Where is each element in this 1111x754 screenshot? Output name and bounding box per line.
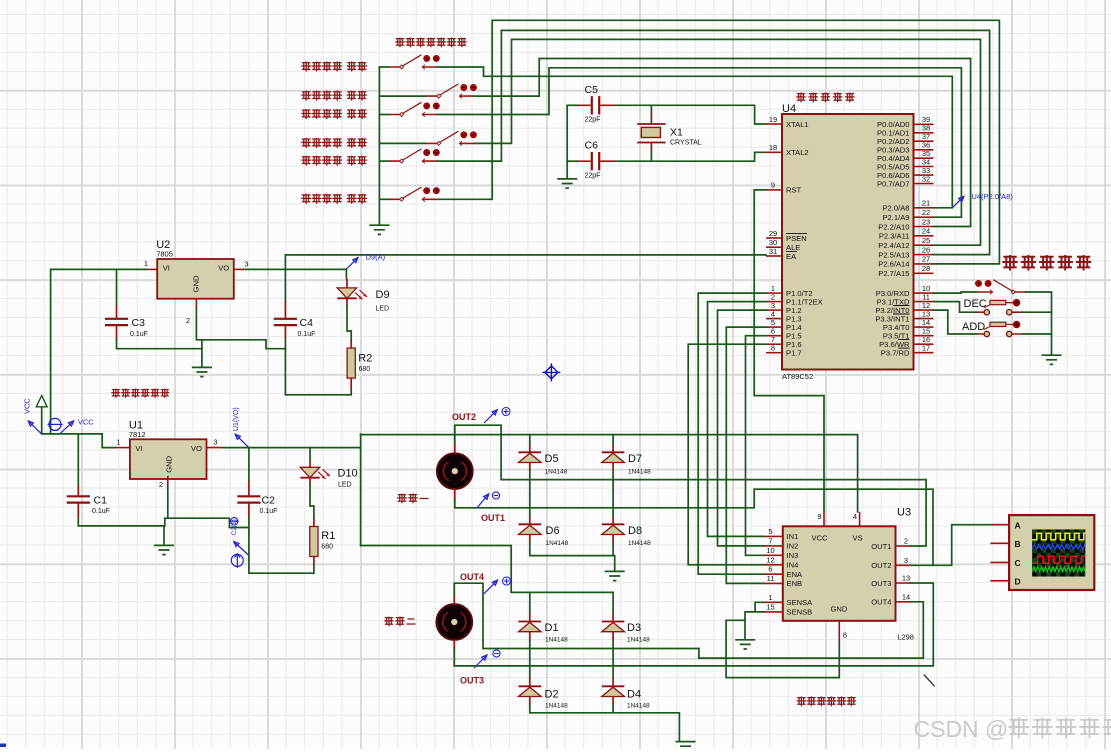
svg-text:P3.7/RD: P3.7/RD	[881, 349, 910, 358]
diode D8 (1N4148)	[602, 516, 625, 544]
power terminal VCC (green arrow)	[36, 396, 47, 434]
svg-text:C2(1): C2(1)	[231, 519, 238, 535]
U4 pin 14 P3.4/T0	[883, 318, 934, 332]
arrow OUT4 blue	[484, 580, 498, 594]
svg-text:D: D	[1015, 576, 1021, 586]
svg-text:B: B	[1015, 539, 1021, 549]
wire U4 P1.2 -> U3 IN2	[718, 310, 767, 546]
switch SW4 (sensor row 4)	[426, 131, 477, 146]
ground (sensor bus)	[369, 225, 389, 234]
wire D1 column	[529, 592, 531, 677]
title 传感器模拟电路 (red)	[395, 38, 405, 48]
svg-text:1N4148: 1N4148	[628, 469, 651, 476]
U3 pin 11 ENB	[764, 574, 802, 588]
svg-text:7: 7	[768, 536, 772, 545]
U4 pin 18 XTAL2	[766, 143, 809, 157]
crystal X1	[637, 113, 665, 152]
U4 pin 19 XTAL1	[766, 115, 809, 129]
circled minus OUT1	[492, 492, 499, 499]
svg-text:D9(A): D9(A)	[366, 253, 386, 262]
svg-text:PSEN: PSEN	[786, 234, 807, 243]
U4 pin 15 P3.5/T1	[883, 327, 934, 341]
diode D6 (1N4148)	[519, 516, 542, 544]
ground (U2)	[192, 367, 212, 376]
svg-text:VO: VO	[218, 264, 229, 273]
svg-text:9: 9	[817, 512, 821, 521]
U3 pin 10 IN3	[764, 546, 799, 560]
scope channel C stub	[990, 558, 1020, 568]
wire net row2 -> U4 pin23	[474, 59, 970, 227]
wire U2 VI net (VCC feed)	[51, 269, 147, 434]
U3 pin 4 VS (top)	[859, 512, 861, 527]
svg-text:OUT1: OUT1	[871, 542, 891, 551]
motor wheel2 (轮子二)	[437, 596, 473, 650]
U4 pin 36 P0.3/AD3	[877, 141, 934, 155]
U4 pin 8 P1.7	[766, 344, 802, 358]
svg-text:5: 5	[768, 527, 772, 536]
svg-text:U4: U4	[782, 103, 796, 115]
origin marker (blue diamond)	[542, 363, 560, 381]
svg-text:3: 3	[244, 259, 248, 268]
corner marker bottom-left	[0, 744, 6, 748]
wire RST net (U4 RST -> U3 VCC pin9)	[754, 190, 824, 512]
stray line artifact	[924, 675, 935, 687]
arrow OUT1 blue	[477, 494, 489, 508]
svg-text:23: 23	[922, 217, 930, 226]
svg-text:22pF: 22pF	[585, 173, 601, 180]
svg-text:28: 28	[922, 264, 930, 273]
resistor R1 (680)	[310, 519, 318, 566]
svg-text:VCC: VCC	[78, 417, 94, 426]
U4 pin 5 P1.4	[766, 318, 802, 332]
wire U4 P1.1 -> U3 IN1	[708, 302, 767, 537]
wire ground stem U2	[201, 340, 203, 367]
U1 pin2 stub	[167, 476, 169, 486]
U3 pin 1 SENSA	[764, 593, 813, 607]
svg-text:IN1: IN1	[787, 532, 799, 541]
wire ground stem U1	[163, 526, 165, 545]
regulator U2 (7805)	[157, 259, 234, 299]
button DEC	[977, 299, 1023, 315]
capacitor C5	[577, 96, 615, 114]
wire crystal left leg + ground	[566, 105, 568, 178]
wire D6/D8 bottom rail	[530, 543, 615, 571]
svg-text:P2.7/A15: P2.7/A15	[878, 269, 909, 278]
svg-text:SENSA: SENSA	[787, 598, 814, 607]
wire net row3 -> U4 pin22	[437, 68, 961, 217]
svg-text:P2.2/A10: P2.2/A10	[878, 222, 909, 231]
U1 pin1 stub	[115, 447, 130, 449]
switch SW1 (sensor row 1)	[389, 55, 440, 70]
diode D2 (1N4148)	[519, 678, 542, 706]
U2 pin2 stub	[195, 299, 197, 308]
capacitor C2 (0.1uF)	[237, 481, 260, 518]
capacitor C3 (0.1uF)	[105, 305, 128, 340]
svg-text:P2.0/A8: P2.0/A8	[882, 204, 909, 213]
U4 pin 4 P1.3	[766, 309, 802, 323]
svg-text:D8: D8	[628, 525, 642, 537]
wire net row5 -> U4 pin26	[437, 30, 989, 254]
svg-text:OUT2: OUT2	[452, 412, 476, 422]
svg-text:D4: D4	[627, 689, 641, 701]
wire XTAL2 net (C6/X1 bottom -> pin18)	[567, 160, 577, 162]
svg-text:1N4148: 1N4148	[545, 469, 568, 476]
capacitor C6	[577, 152, 615, 170]
ground (D2/D4)	[676, 742, 696, 751]
arrow D9(A)	[346, 258, 358, 269]
wire U4 P1.6 -> U3 IN4	[688, 344, 766, 565]
svg-text:14: 14	[902, 592, 910, 601]
wire obstacle switch -> ground bus	[1026, 292, 1052, 355]
diode D3 (1N4148)	[602, 613, 625, 641]
U4 pin 33 P0.6/AD6	[877, 166, 934, 180]
label row1 (前/后传感器 往左/右)	[301, 62, 311, 72]
svg-text:DEC: DEC	[964, 298, 987, 310]
wire U1 VO net (+12V)	[223, 434, 361, 545]
resistor R2 (680)	[347, 340, 355, 390]
svg-text:A: A	[1015, 520, 1021, 530]
svg-text:1N4148: 1N4148	[627, 703, 650, 710]
U4 pin 25 P2.4/A12	[878, 236, 933, 250]
circled plus OUT4	[503, 577, 511, 585]
diode D5 (1N4148)	[519, 443, 542, 471]
ground (U1)	[154, 545, 174, 554]
obstacle switch (mirrored)	[976, 280, 1027, 295]
svg-text:18: 18	[769, 143, 777, 152]
wire SENSA/SENSB to ground	[726, 602, 839, 677]
wire row4 left	[379, 142, 425, 144]
wire EA net (+5V rail to U4 EA pin31)	[285, 254, 766, 256]
wire row1 left	[379, 66, 388, 68]
svg-text:IN3: IN3	[787, 551, 799, 560]
svg-text:19: 19	[769, 115, 777, 124]
U4 pin 26 P2.5/A13	[878, 245, 933, 259]
svg-text:IN2: IN2	[787, 542, 799, 551]
wire net row4 -> U4 pin25	[474, 39, 980, 245]
svg-text:22pF: 22pF	[585, 117, 601, 124]
arrow U1(VO)	[235, 434, 249, 447]
label row2 (前/后传感器 往左/右)	[301, 91, 311, 101]
U3 pin 13 OUT3	[871, 574, 910, 588]
svg-text:4: 4	[853, 512, 857, 521]
svg-text:C1: C1	[94, 495, 108, 507]
U4 pin 24 P2.3/A11	[879, 227, 934, 241]
wire OUT4 pin14 path	[699, 602, 923, 658]
wire XTAL1 net (C5/X1 top -> pin19)	[567, 104, 577, 106]
svg-text:D7: D7	[628, 453, 642, 465]
svg-text:15: 15	[766, 602, 774, 611]
svg-text:1: 1	[768, 593, 772, 602]
U4 pin 13 P3.3/INT1	[875, 309, 933, 323]
svg-text:27: 27	[922, 255, 930, 264]
svg-text:CSDN @: CSDN @	[914, 716, 1009, 742]
svg-text:0.1uF: 0.1uF	[130, 331, 148, 338]
label 轮子一 (red)	[397, 494, 407, 504]
wire +12V rail A (U1 VO -> VS, D5/D7 tops)	[361, 435, 858, 512]
wire U2 ground rail	[117, 308, 286, 349]
regulator U1 (7812)	[130, 439, 207, 479]
svg-text:OUT1: OUT1	[481, 513, 505, 523]
svg-text:P0.7/AD7: P0.7/AD7	[877, 179, 910, 188]
MCU U4 body (AT89C52)	[782, 114, 914, 370]
label 三端稳压电路 (red)	[111, 389, 120, 398]
ground (D6/D8)	[605, 571, 625, 580]
svg-text:8: 8	[843, 631, 847, 640]
svg-text:9: 9	[771, 181, 775, 190]
wire ground stem U3	[744, 620, 746, 639]
svg-text:2: 2	[186, 316, 190, 325]
wire U4 P1.5 -> U3 IN3	[746, 336, 767, 556]
sensor ground bus (left vertical x=379.4)	[378, 67, 380, 225]
U4 pin 7 P1.6	[766, 335, 802, 349]
U3 pin 8 GND (bottom)	[838, 621, 840, 642]
svg-text:OUT4: OUT4	[460, 572, 484, 582]
label 避障传感器 (big red)	[1002, 255, 1017, 271]
ground (crystal)	[557, 179, 577, 188]
wire row6 left	[379, 198, 388, 200]
capacitor C1 (0.1uF)	[67, 484, 90, 518]
svg-text:0.1uF: 0.1uF	[92, 508, 110, 515]
wire U4 P1.4 -> U3 ENB	[726, 327, 766, 583]
label row3 (前/后传感器 往左/右)	[301, 109, 311, 119]
wire C1 top leg	[77, 434, 79, 484]
svg-text:U3: U3	[897, 507, 911, 519]
wire net row1 -> U4 pin21	[437, 67, 952, 208]
svg-text:1N4148: 1N4148	[627, 637, 650, 644]
U4 pin 9 RST	[766, 181, 802, 195]
svg-text:U4(P2.0/A8): U4(P2.0/A8)	[972, 192, 1014, 201]
switch SW2 (sensor row 2)	[426, 84, 477, 99]
LED D10	[300, 460, 330, 484]
svg-text:GND: GND	[192, 275, 201, 292]
svg-text:VCC: VCC	[812, 534, 829, 543]
svg-text:D2: D2	[545, 689, 559, 701]
switch SW6 (sensor row 6)	[389, 187, 440, 202]
U4 pin 6 P1.5	[766, 327, 802, 341]
U4 pin 3 P1.2	[766, 301, 802, 315]
svg-text:22: 22	[922, 208, 930, 217]
wire row3 left	[379, 114, 388, 116]
U3 pin 12 IN4	[764, 555, 799, 569]
arrow OUT2 blue	[484, 410, 497, 423]
wire U2 VO net (+5V) to D9	[244, 269, 346, 278]
svg-text:31: 31	[769, 247, 777, 256]
svg-text:OUT3: OUT3	[871, 579, 891, 588]
svg-text:21: 21	[922, 199, 930, 208]
arrow C2(1)	[234, 542, 249, 556]
wire scope A -> L298 OUT2 pin3	[911, 525, 991, 566]
svg-text:P2.6/A14: P2.6/A14	[878, 260, 909, 269]
svg-text:12: 12	[766, 555, 774, 564]
U3 pin 6 ENA	[764, 565, 803, 579]
svg-text:3: 3	[213, 438, 217, 447]
wire D9->R2	[347, 306, 351, 341]
circled minus OUT3	[493, 650, 500, 657]
svg-text:VI: VI	[135, 444, 142, 453]
net label C2(1) decorations (blue)	[230, 518, 239, 525]
U4 pin 37 P0.2/AD2	[877, 132, 934, 146]
svg-text:ADD: ADD	[962, 321, 985, 333]
svg-text:ALE: ALE	[786, 243, 800, 252]
U4 pin 17 P3.7/RD	[881, 344, 934, 358]
svg-text:LED: LED	[376, 306, 390, 313]
diode D1 (1N4148)	[519, 613, 542, 641]
svg-text:680: 680	[321, 544, 333, 551]
svg-text:1N4148: 1N4148	[545, 637, 568, 644]
svg-text:XTAL2: XTAL2	[786, 148, 809, 157]
svg-text:IN4: IN4	[787, 561, 799, 570]
svg-text:24: 24	[922, 227, 930, 236]
svg-text:L298: L298	[897, 633, 914, 642]
U3 pin 14 OUT4	[871, 592, 910, 606]
label 轮子二 (red)	[384, 617, 394, 627]
wire DEC -> ground bus	[1023, 311, 1052, 313]
U4 pin 23 P2.2/A10	[878, 217, 933, 231]
wire U4 P3.2 -> button ADD	[934, 310, 977, 334]
U4 pin 10 P3.0/RXD	[876, 284, 934, 298]
svg-text:1: 1	[116, 437, 120, 446]
U4 pin 28 P2.7/A15	[878, 264, 933, 278]
U4 pin 35 P0.4/AD4	[877, 149, 934, 163]
svg-text:D5: D5	[545, 453, 559, 465]
U3 pin 9 VCC (top)	[823, 512, 825, 527]
svg-text:P2.3/A11: P2.3/A11	[879, 232, 910, 241]
svg-text:1: 1	[144, 259, 148, 268]
wire ADD -> ground bus	[1023, 333, 1052, 335]
wire row5 left	[379, 160, 388, 162]
U4 pin 30 ALE	[766, 238, 800, 252]
wire U4 P1.0 -> U3 ENA	[698, 293, 766, 574]
svg-text:6: 6	[768, 565, 772, 574]
wire U4 P3.1 -> button DEC	[934, 302, 977, 313]
svg-text:OUT2: OUT2	[871, 561, 891, 570]
svg-text:C: C	[1015, 558, 1021, 568]
capacitor C4 (0.1uF)	[274, 301, 297, 340]
circled plus OUT2	[502, 408, 510, 416]
svg-text:13: 13	[902, 574, 910, 583]
wire D10->R1	[310, 484, 314, 519]
U2 pin3 stub	[234, 268, 244, 270]
svg-text:0.1uF: 0.1uF	[298, 331, 316, 338]
ground (U3)	[735, 640, 755, 649]
wire C3 top leg	[116, 269, 118, 305]
ground (obstacle)	[1042, 355, 1062, 364]
svg-text:C3: C3	[132, 317, 146, 329]
svg-text:AT89C52: AT89C52	[782, 372, 813, 381]
power flag circle	[48, 418, 63, 430]
U4 pin 32 P0.7/AD7	[877, 174, 934, 188]
wire R1 bottom rail -> C2 bottom	[249, 528, 314, 574]
svg-text:7805: 7805	[156, 250, 173, 259]
svg-text:26: 26	[922, 245, 930, 254]
svg-text:RST: RST	[786, 186, 802, 195]
svg-text:P2.1/A9: P2.1/A9	[882, 213, 909, 222]
svg-text:P2.5/A13: P2.5/A13	[878, 250, 909, 259]
svg-text:LED: LED	[338, 482, 352, 489]
wire net row6 -> U4 pin27	[437, 20, 999, 264]
svg-text:D9: D9	[376, 289, 390, 301]
svg-text:P1.7: P1.7	[786, 349, 802, 358]
svg-text:1N4148: 1N4148	[545, 703, 568, 710]
wire C2 top leg	[248, 448, 250, 481]
U4 pin 22 P2.1/A9	[882, 208, 933, 222]
svg-text:VS: VS	[853, 534, 863, 543]
svg-text:3: 3	[904, 556, 908, 565]
svg-text:VO: VO	[191, 444, 202, 453]
svg-text:2: 2	[904, 537, 908, 546]
arrow OUT3 blue	[474, 655, 487, 668]
label row6 (前/后传感器 往左/右)	[301, 194, 311, 204]
svg-text:CRYSTAL: CRYSTAL	[670, 140, 702, 147]
U1 pin3 stub	[206, 447, 223, 449]
wire U1 ground rail	[78, 486, 249, 528]
wire D10 top leg	[309, 448, 311, 460]
wire VCC rail -> U1 VI	[42, 434, 115, 448]
svg-text:C5: C5	[585, 84, 599, 96]
arrow U4(P2.0/A8)	[952, 196, 964, 208]
U3 pin 15 SENSB	[764, 602, 812, 616]
wire wheel2 +12V feed (rail y=545.5 -> D1/D3 tops)	[361, 546, 613, 593]
svg-text:EA: EA	[786, 252, 797, 261]
svg-text:SENSB: SENSB	[787, 608, 813, 617]
svg-text:GND: GND	[831, 605, 848, 614]
svg-text:D3: D3	[627, 622, 641, 634]
U2 pin1 stub	[147, 268, 157, 270]
switch SW5 (sensor row 5)	[389, 149, 440, 164]
svg-text:ENA: ENA	[787, 570, 804, 579]
wire OUT1 net (motor1 bottom -> L298 OUT2 pin3)	[455, 489, 933, 565]
U3 pin 5 IN1	[764, 527, 799, 541]
oscilloscope body	[1009, 515, 1094, 590]
wire OUT4 net (motor2 top)	[454, 583, 699, 648]
U4 pin 31 EA	[766, 247, 797, 261]
U4 pin 38 P0.1/AD1	[877, 124, 934, 138]
scope channel B stub	[990, 539, 1020, 549]
svg-text:D6: D6	[546, 525, 560, 537]
svg-text:R2: R2	[358, 353, 372, 365]
U4 pin 11 P3.1/TXD	[877, 292, 934, 306]
svg-text:30: 30	[769, 238, 777, 247]
svg-text:10: 10	[766, 546, 774, 555]
wire C4 top leg	[284, 255, 286, 301]
svg-text:VI: VI	[163, 264, 170, 273]
svg-text:GND: GND	[164, 455, 173, 472]
wire D2/D4 bottom rail	[530, 705, 680, 741]
button ADD	[977, 321, 1023, 337]
motor driver U3 body (L298)	[783, 526, 896, 621]
motor wheel1 (轮子一)	[437, 443, 473, 500]
svg-text:VCC: VCC	[23, 398, 32, 414]
U3 pin 7 IN2	[764, 536, 799, 550]
svg-text:1N4148: 1N4148	[628, 540, 651, 547]
scope channel A stub	[990, 520, 1020, 530]
wire R2 bottom -> C4 bottom rail	[285, 349, 351, 395]
label 电机驱动电路 (red)	[797, 697, 807, 707]
svg-text:7812: 7812	[129, 430, 146, 439]
svg-text:D10: D10	[338, 468, 358, 480]
U4 pin 1 P1.0/T2	[766, 284, 813, 298]
svg-text:25: 25	[922, 236, 930, 245]
wire D7 column	[612, 435, 614, 516]
U4 pin 29 PSEN	[766, 229, 807, 243]
svg-text:32: 32	[922, 174, 930, 183]
wire D5 column	[529, 435, 531, 516]
wire X1 top/bottom legs	[650, 105, 652, 161]
U4 pin 39 P0.0/AD0	[877, 115, 934, 129]
diode D4 (1N4148)	[602, 678, 625, 706]
svg-text:680: 680	[359, 366, 371, 373]
svg-text:X1: X1	[670, 126, 683, 138]
